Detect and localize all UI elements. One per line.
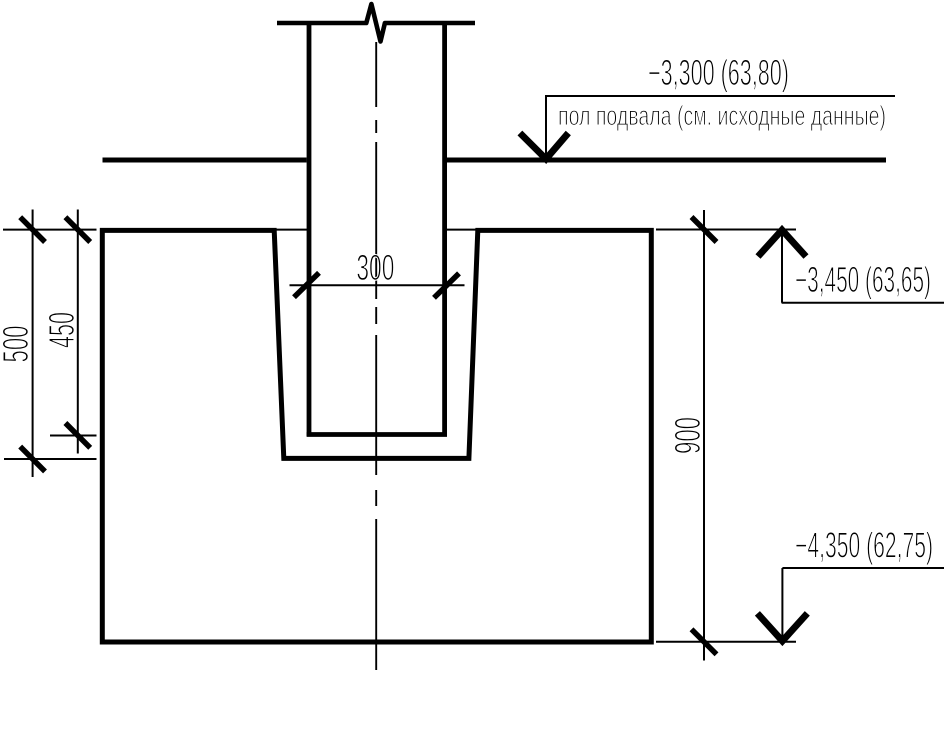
svg-text:−3,450 (63,65): −3,450 (63,65) (795, 259, 931, 300)
elevation mark -4,350 leader (781, 568, 783, 641)
dimension line 450 (77, 210, 79, 454)
dimension line 300 (290, 284, 465, 286)
svg-text:пол подвала (см. исходные данн: пол подвала (см. исходные данные) (558, 100, 886, 131)
extension line 500 bottom (4, 458, 97, 460)
foundation outline (102, 230, 651, 642)
elevation mark -3,450 leader (781, 230, 783, 303)
extension line bottom-right (656, 641, 796, 643)
svg-text:900: 900 (667, 417, 708, 454)
elevation mark -4,350 arrow (757, 613, 807, 641)
ground line right (447, 158, 886, 163)
elevation mark -3,300 shelf (545, 95, 895, 97)
socket back edge left (274, 229, 307, 231)
dimension line 500 (32, 210, 34, 478)
dimension line 900 (703, 210, 705, 661)
tick 500 bottom (20, 447, 45, 472)
elevation mark -3,450 arrow (758, 230, 806, 257)
elevation mark -4,350 shelf (782, 567, 944, 569)
svg-text:500: 500 (0, 326, 36, 363)
tick 450 top (65, 217, 90, 242)
column break line (277, 4, 475, 42)
tick 300 left (294, 273, 319, 297)
svg-text:−3,300 (63,80): −3,300 (63,80) (648, 52, 789, 93)
svg-text:300: 300 (356, 247, 394, 288)
tick 900 top (692, 217, 717, 242)
ground line left (103, 158, 307, 163)
tick 300 right (434, 273, 459, 297)
extension line top-left (3, 229, 97, 231)
socket back edge right (447, 229, 478, 231)
extension line top-right (656, 229, 796, 231)
svg-text:450: 450 (41, 312, 82, 348)
svg-text:−4,350 (62,75): −4,350 (62,75) (795, 525, 933, 566)
column left edge (307, 23, 312, 436)
column bottom (307, 432, 447, 437)
tick 500 top (20, 217, 45, 242)
extension line 450 bottom (50, 435, 97, 437)
tick 450 bottom (65, 423, 90, 448)
elevation mark -3,300 leader (545, 96, 547, 159)
column right edge (442, 23, 447, 436)
tick 900 bottom (692, 629, 717, 654)
centerline (375, 42, 377, 670)
elevation mark -3,450 shelf (782, 302, 944, 304)
elevation mark -3,300 arrow (520, 133, 568, 159)
